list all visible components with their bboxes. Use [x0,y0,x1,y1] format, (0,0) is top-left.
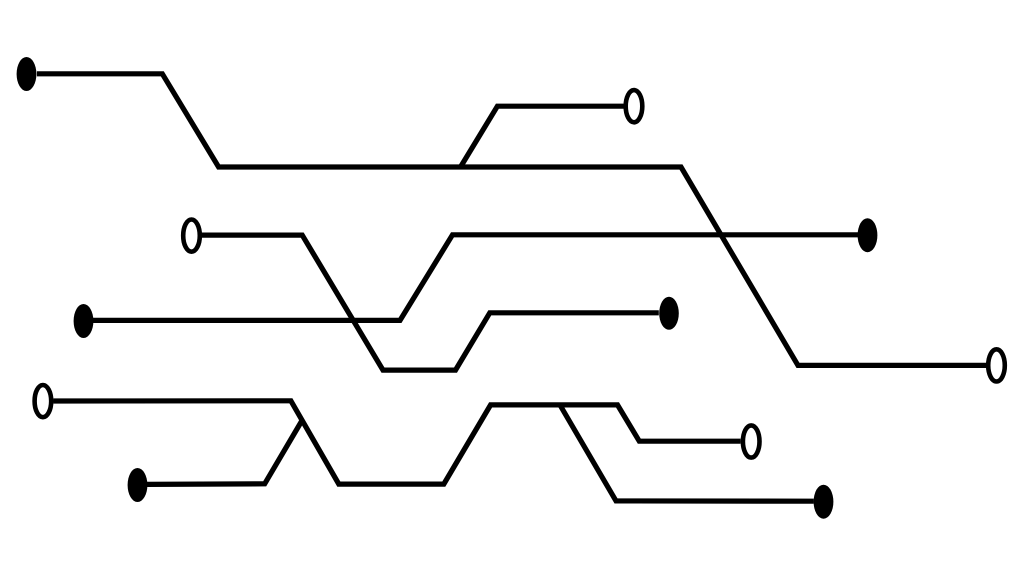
node pad open D-start [183,220,200,252]
wire trace C [93,235,858,321]
node pad filled C-start [74,304,94,338]
node pad filled A-start [17,57,37,91]
node pad filled G-end [814,485,834,519]
wire trace B branch [461,106,624,167]
node pad filled F-start [128,468,148,502]
wire trace D [201,235,658,370]
wire trace F [147,422,301,485]
wire trace G branch [560,405,814,501]
node pad open E-end [743,425,760,457]
node pad filled D-end [659,297,679,330]
node pad open B-end [626,90,643,122]
wire trace E [53,401,740,484]
node pad open A-end [988,349,1005,381]
wire trace A [37,74,986,366]
node pad open E-start [35,385,52,417]
node pad filled C-end [858,218,878,252]
